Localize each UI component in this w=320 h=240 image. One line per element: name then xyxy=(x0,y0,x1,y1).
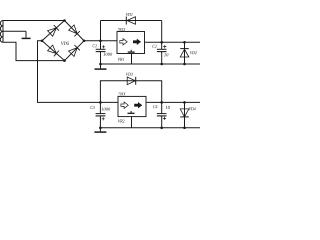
wire bridge left node to 79XX input xyxy=(38,41,119,103)
node C4 top xyxy=(160,101,163,104)
node C2 top xyxy=(160,41,163,44)
bridge diode VD5b top-right xyxy=(69,25,80,36)
node bridge bottom xyxy=(63,59,66,62)
VR2 ground pin mark xyxy=(128,111,135,113)
label 78XX xyxy=(118,28,125,31)
node input junction bottom xyxy=(99,101,102,104)
node C2 bottom xyxy=(160,63,163,66)
VR2 output filled arrow xyxy=(134,102,142,108)
plus C1 xyxy=(102,45,105,48)
regulator VR1 78XX box xyxy=(117,32,145,54)
bridge rectifier VD5 diamond xyxy=(42,21,84,61)
VR1 ground pin mark xyxy=(128,50,135,52)
label VR2 xyxy=(118,120,125,123)
ground top rail xyxy=(95,64,107,69)
node C4 bottom xyxy=(160,127,163,130)
node gnd rail left xyxy=(99,63,102,66)
node VD4 top xyxy=(183,101,186,104)
label VD5 xyxy=(61,42,69,45)
wire VD1 bypass line xyxy=(101,20,162,22)
wire VR2 ground pin to rail xyxy=(131,117,133,128)
capacitor C2 xyxy=(157,42,167,64)
node bottom rail left xyxy=(99,127,102,130)
diode VD1 xyxy=(126,17,135,25)
node input junction top xyxy=(99,40,102,43)
diode VD3 xyxy=(127,77,136,85)
bridge diode VD5c bottom-left xyxy=(48,45,59,56)
transformer winding chord line xyxy=(2,21,4,43)
wire -out rail xyxy=(146,101,200,103)
plus C4 xyxy=(163,117,166,120)
label VD2 xyxy=(190,51,197,54)
label C4 xyxy=(153,105,157,108)
node bridge right xyxy=(83,40,86,43)
node bridge left xyxy=(41,40,44,43)
diode VD2 xyxy=(180,42,189,64)
label C2 value xyxy=(164,53,168,56)
label C4 value xyxy=(166,106,170,109)
wire top ground rail xyxy=(101,63,201,65)
label VR1 xyxy=(118,58,124,61)
transformer T1 secondary winding xyxy=(0,21,3,43)
label C1 xyxy=(93,44,97,47)
ground center tap xyxy=(22,31,31,38)
wire VD1 line right drop xyxy=(161,21,163,43)
label VD3 xyxy=(126,73,133,76)
label C2 xyxy=(152,45,156,48)
capacitor C1 xyxy=(96,49,106,64)
VR1 input open arrow xyxy=(120,39,127,45)
wire input vertical / C1 top lead xyxy=(100,21,102,50)
wire VD3 bypass line xyxy=(100,81,161,103)
wire secondary top to bridge top node xyxy=(3,20,65,22)
bridge diode VD5a top-left xyxy=(48,25,59,36)
wire bridge right node to 78XX input xyxy=(84,40,117,42)
plus C3 xyxy=(102,117,105,120)
label VD4 xyxy=(189,107,196,110)
label 79XX xyxy=(118,92,125,95)
capacitor C4 xyxy=(157,102,167,127)
regulator VR2 79XX box xyxy=(118,96,146,116)
wire VR1 ground pin to rail xyxy=(131,54,133,65)
node bridge top xyxy=(63,19,66,22)
wire center tap xyxy=(3,30,26,32)
node VD2 bottom xyxy=(183,63,186,66)
plus C2 xyxy=(163,45,166,48)
ground bottom rail xyxy=(94,128,106,132)
diode VD4 xyxy=(180,102,189,127)
node VD4 bottom xyxy=(183,127,186,130)
label C3 value xyxy=(101,108,110,111)
capacitor C3 xyxy=(96,102,106,127)
wire secondary bottom to bridge bottom node xyxy=(3,42,65,60)
label VD1 xyxy=(126,13,132,16)
node VD2 top xyxy=(183,41,186,44)
VR1 output filled arrow xyxy=(133,39,141,45)
label C1 value xyxy=(103,53,112,56)
label C3 xyxy=(90,106,94,109)
VR2 input open arrow xyxy=(121,102,128,108)
wire +out rail xyxy=(145,41,201,43)
wire bottom ground rail xyxy=(100,127,200,129)
bridge diode VD5d bottom-right xyxy=(69,45,80,56)
